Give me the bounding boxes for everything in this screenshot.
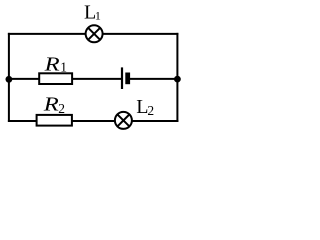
wire top side [8, 33, 179, 35]
svg-text:2: 2 [147, 103, 154, 118]
junction dot right node [174, 76, 181, 83]
junction dot left node [5, 76, 12, 83]
resistor R1 [39, 73, 72, 84]
label R2 [43, 93, 65, 117]
svg-text:1: 1 [60, 59, 67, 74]
wire bottom side [8, 120, 179, 122]
svg-text:2: 2 [58, 101, 65, 116]
battery B1 [122, 67, 130, 89]
svg-text:R: R [44, 52, 60, 74]
wire middle branch left of battery [8, 78, 122, 80]
svg-text:1: 1 [95, 8, 101, 22]
wire left rail [8, 33, 10, 122]
wire middle branch right of battery [128, 78, 179, 80]
svg-text:R: R [43, 93, 59, 115]
resistor R2 [37, 115, 72, 126]
lamp L2 [115, 112, 132, 129]
lamp L1 [86, 25, 103, 42]
label R1 [44, 52, 67, 74]
label L1 [84, 1, 101, 23]
label L2 [136, 96, 154, 118]
wire right rail [176, 33, 178, 122]
